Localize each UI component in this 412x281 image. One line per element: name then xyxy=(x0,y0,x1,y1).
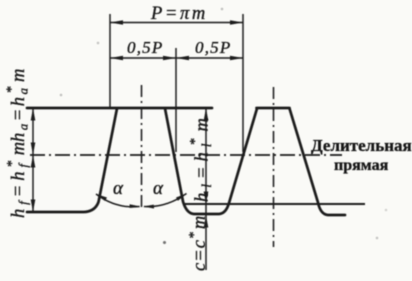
ha arrowhead at tip line xyxy=(31,108,36,121)
scan speckles xyxy=(163,241,166,244)
svg-text:0,5P: 0,5P xyxy=(195,38,231,57)
rack profile: left root line + tooth 1 left flank xyxy=(27,109,117,213)
svg-text:α: α xyxy=(113,178,124,199)
0,5P arrowhead at x=243 xyxy=(230,56,243,61)
svg-text:0,5P: 0,5P xyxy=(127,38,163,57)
tooth 1 right flank + groove bottom + tooth 2 left flank xyxy=(165,109,257,215)
alpha angle arc left xyxy=(96,194,140,207)
svg-text:Делительная: Делительная xyxy=(311,136,412,155)
P dimension arrowhead right xyxy=(230,20,243,25)
tooth 2 centerline xyxy=(273,87,275,247)
c arrowhead at groove bottom xyxy=(204,216,209,228)
P dimension line xyxy=(110,22,243,24)
pitch line (делительная прямая), dash-dot xyxy=(30,154,342,156)
svg-text:α: α xyxy=(153,178,164,199)
tooth 2 right flank + right root line xyxy=(290,109,346,216)
left alpha arc arrowheads xyxy=(96,194,107,201)
left dimension line ha / hf xyxy=(32,108,34,212)
0,5P dimension lines xyxy=(110,57,243,59)
extension line at x=243 xyxy=(242,14,244,152)
svg-text:hl=hl*m: hl=hl*m xyxy=(188,113,214,202)
tip line (линия вершин) xyxy=(27,107,212,110)
right alpha arc arrowheads xyxy=(143,205,154,209)
hl arrowhead at tip line xyxy=(204,108,209,121)
svg-text:c=c*m: c=c*m xyxy=(187,215,210,271)
svg-text:P=πm: P=πm xyxy=(150,4,208,24)
hl arrowhead at boundary line xyxy=(204,192,209,205)
extension line at x=110 xyxy=(109,14,111,108)
alpha angle arc right xyxy=(144,194,187,207)
0,5P arrowheads at x=176 xyxy=(163,56,176,61)
h_l / c dimension line xyxy=(205,108,207,270)
P dimension arrowhead left xyxy=(110,20,123,25)
tooth 2 top land xyxy=(257,107,290,110)
boundary line (граничная прямая) xyxy=(184,203,365,205)
ha/hf arrowheads at pitch line xyxy=(31,143,36,156)
extension line at x=176 xyxy=(175,48,177,152)
0,5P arrowhead at x=110 xyxy=(110,56,123,61)
svg-text:ha=ha*m: ha=ha*m xyxy=(5,66,31,142)
tooth 1 centerline xyxy=(141,85,143,211)
svg-text:прямая: прямая xyxy=(334,157,389,174)
hf arrowhead at root line xyxy=(31,200,36,213)
